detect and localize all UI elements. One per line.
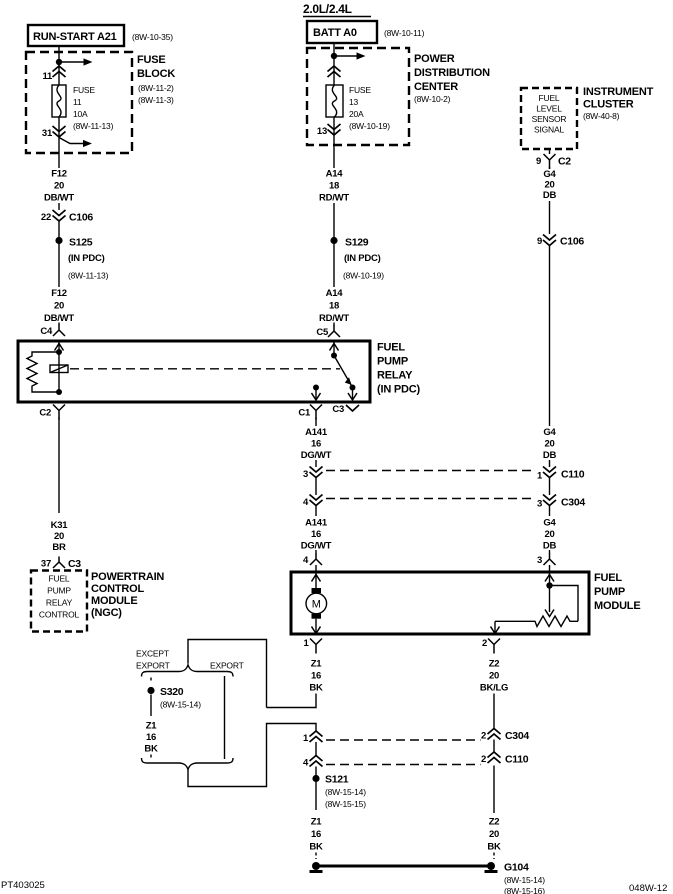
svg-text:(8W-15-15): (8W-15-15) xyxy=(325,799,366,809)
svg-text:20A: 20A xyxy=(349,109,364,119)
svg-text:18: 18 xyxy=(329,181,339,192)
svg-text:Z1: Z1 xyxy=(146,721,158,732)
node switch common xyxy=(331,353,337,359)
svg-text:1: 1 xyxy=(537,471,543,482)
svg-text:22: 22 xyxy=(41,212,51,223)
fuse F13 symbol xyxy=(326,85,343,117)
svg-text:C1: C1 xyxy=(298,408,311,419)
svg-text:C3: C3 xyxy=(332,404,344,415)
alternate merge brace (bottom) xyxy=(142,758,234,770)
wire K31 20 BR xyxy=(51,418,69,554)
wire A141 16 DG/WT (upper) xyxy=(301,418,332,468)
wire Z2 20 BK (ground leg) xyxy=(487,766,501,860)
svg-text:11: 11 xyxy=(42,71,53,82)
wiper arrow onto resistor xyxy=(545,610,554,617)
wire arrow branch right (fuse block bottom) xyxy=(59,138,92,148)
svg-text:RELAY: RELAY xyxy=(46,598,73,608)
svg-text:A141: A141 xyxy=(305,427,328,438)
ground bus G104 xyxy=(316,865,491,868)
svg-text:2: 2 xyxy=(481,731,486,742)
alternate split brace (top) xyxy=(142,665,234,677)
wire branch from Z1 to alternates xyxy=(188,640,267,708)
wire C4 coil feed + entry arrow xyxy=(55,343,64,393)
connector chevrons above fuse 13 xyxy=(328,66,341,77)
svg-text:FUSE: FUSE xyxy=(137,54,166,66)
svg-text:11: 11 xyxy=(73,97,82,107)
resistor parallel to coil xyxy=(27,352,59,392)
svg-text:(8W-11-3): (8W-11-3) xyxy=(138,95,174,105)
svg-text:16: 16 xyxy=(146,732,156,743)
svg-text:POWER: POWER xyxy=(414,53,455,65)
svg-text:1: 1 xyxy=(303,638,309,649)
svg-text:BR: BR xyxy=(52,542,66,553)
splice S125 xyxy=(55,237,108,281)
svg-text:A14: A14 xyxy=(326,169,344,180)
svg-text:MODULE: MODULE xyxy=(594,600,640,612)
svg-text:(8W-10-35): (8W-10-35) xyxy=(132,32,173,42)
wire cluster to C2 xyxy=(549,149,551,154)
svg-text:2.0L/2.4L: 2.0L/2.4L xyxy=(303,2,352,16)
svg-text:(8W-15-14): (8W-15-14) xyxy=(160,700,201,710)
svg-text:S320: S320 xyxy=(160,686,184,698)
svg-text:BATT A0: BATT A0 xyxy=(313,27,357,39)
pin C4 relay xyxy=(40,325,65,338)
svg-text:37: 37 xyxy=(41,559,51,570)
svg-text:CENTER: CENTER xyxy=(414,81,458,93)
connector C106 pin 22 xyxy=(41,210,93,224)
svg-text:3: 3 xyxy=(537,499,542,510)
svg-text:(8W-11-13): (8W-11-13) xyxy=(73,121,114,131)
svg-text:EXPORT: EXPORT xyxy=(210,661,244,671)
dashed connector line C110 xyxy=(326,470,536,472)
svg-text:(IN PDC): (IN PDC) xyxy=(344,253,381,264)
connector C110 pin 1 (right side) xyxy=(537,467,585,482)
wire export branch xyxy=(224,676,226,759)
svg-text:DB: DB xyxy=(543,450,557,461)
svg-text:(8W-10-2): (8W-10-2) xyxy=(414,94,451,104)
svg-text:EXPORT: EXPORT xyxy=(136,661,170,671)
splice S129 xyxy=(330,237,384,281)
pin 2 connector xyxy=(482,638,500,654)
label EXCEPT EXPORT xyxy=(136,649,170,671)
wire A141 16 DG/WT (lower) xyxy=(301,506,332,554)
fuel pump module box xyxy=(291,572,589,634)
label FUSE 13 20A (8W-10-19) xyxy=(349,85,390,131)
svg-text:FUEL: FUEL xyxy=(49,574,70,584)
wire C3 exit + arrow xyxy=(348,388,357,401)
svg-text:(8W-15-14): (8W-15-14) xyxy=(504,875,545,885)
svg-text:POWERTRAIN: POWERTRAIN xyxy=(91,571,164,583)
svg-text:20: 20 xyxy=(54,531,64,542)
svg-text:C3: C3 xyxy=(68,558,81,570)
svg-text:DB/WT: DB/WT xyxy=(44,193,74,204)
svg-text:C110: C110 xyxy=(505,754,529,766)
pin 11 connector chevrons xyxy=(42,66,65,82)
dashed connector line C304 xyxy=(326,498,536,500)
pin 3 fuel pump module xyxy=(537,554,556,572)
svg-text:(8W-11-2): (8W-11-2) xyxy=(138,83,174,93)
wire G4 20 DB (relay level) xyxy=(543,427,557,467)
fuse F11 symbol xyxy=(52,85,66,117)
wire G4 long down to relay area xyxy=(549,246,551,426)
svg-text:SIGNAL: SIGNAL xyxy=(534,125,564,135)
wire F12 20 DB/WT (upper) xyxy=(44,169,74,211)
label 2.0L/2.4L engine xyxy=(303,2,371,17)
wire from RUN-START A21 into fuse block xyxy=(58,46,60,85)
splice S320 (except export) xyxy=(147,678,201,717)
wire C106 to S125 xyxy=(58,222,60,288)
svg-text:INSTRUMENT: INSTRUMENT xyxy=(583,86,654,98)
svg-text:20: 20 xyxy=(489,671,499,682)
svg-text:Z1: Z1 xyxy=(311,659,323,670)
wire arrow branch right (PDC top) xyxy=(334,52,366,59)
powertrain control module dashed box (fuel pump relay control) xyxy=(31,571,87,632)
pin C3 connector xyxy=(332,404,359,415)
fuse block dashed box xyxy=(26,52,132,153)
svg-text:DB/WT: DB/WT xyxy=(44,313,74,324)
svg-text:DB: DB xyxy=(543,190,557,201)
svg-text:16: 16 xyxy=(311,439,321,450)
svg-text:A14: A14 xyxy=(326,288,344,299)
svg-text:C106: C106 xyxy=(560,236,584,248)
label INSTRUMENT CLUSTER xyxy=(583,86,654,121)
wire BATT A0 into PDC xyxy=(333,43,335,85)
svg-text:(8W-15-14): (8W-15-14) xyxy=(325,787,366,797)
svg-text:PUMP: PUMP xyxy=(47,586,71,596)
svg-text:9: 9 xyxy=(536,156,541,167)
svg-text:4: 4 xyxy=(303,497,309,508)
label FUSE BLOCK xyxy=(137,54,175,105)
pin C1 connector xyxy=(298,405,322,420)
svg-text:20: 20 xyxy=(544,439,554,450)
svg-text:RD/WT: RD/WT xyxy=(319,313,349,324)
svg-text:16: 16 xyxy=(311,529,321,540)
svg-text:C110: C110 xyxy=(561,469,585,481)
label FUEL PUMP RELAY (IN PDC) xyxy=(377,342,421,396)
wire Z1 16 BK (S320 branch) xyxy=(144,721,158,760)
svg-text:Z2: Z2 xyxy=(489,817,500,828)
svg-text:RUN-START A21: RUN-START A21 xyxy=(33,31,117,43)
connector C2 pin 9 xyxy=(536,154,571,169)
svg-text:BLOCK: BLOCK xyxy=(137,68,175,80)
svg-text:BK/LG: BK/LG xyxy=(480,683,508,694)
label FUSE 11 10A (8W-11-13) xyxy=(73,85,114,131)
svg-text:S129: S129 xyxy=(345,237,369,249)
svg-text:G4: G4 xyxy=(543,427,556,438)
svg-text:1: 1 xyxy=(303,733,309,744)
wire C1 exit + arrow xyxy=(312,388,321,401)
node junction dot PDC xyxy=(331,53,337,59)
svg-text:G4: G4 xyxy=(543,518,556,529)
svg-text:DG/WT: DG/WT xyxy=(301,541,332,552)
svg-text:CONTROL: CONTROL xyxy=(39,610,80,620)
connector C110 pin 3 (left side) xyxy=(303,467,323,481)
connector C110 pin 4 (left low) xyxy=(303,756,323,769)
svg-text:20: 20 xyxy=(544,180,554,191)
node C3 contact xyxy=(350,385,356,391)
pin 37 connector C3 xyxy=(41,557,81,571)
resistor fuel level sender xyxy=(495,616,578,627)
svg-text:(8W-10-19): (8W-10-19) xyxy=(343,271,384,281)
dashed actuation line xyxy=(70,368,340,370)
wire motor to pin1 + exit arrow xyxy=(312,619,321,634)
node RUN-START A21 feed box xyxy=(28,25,124,46)
svg-text:FUSE: FUSE xyxy=(349,85,371,95)
svg-text:M: M xyxy=(312,599,321,611)
motor M1 fuel pump motor xyxy=(306,588,327,619)
wire G4 20 DB (upper) xyxy=(543,167,557,234)
node junction dot fuse block xyxy=(56,59,62,65)
relay K1 fuel pump relay box xyxy=(18,341,370,402)
svg-text:4: 4 xyxy=(303,555,309,566)
svg-text:G104: G104 xyxy=(504,862,529,874)
svg-text:9: 9 xyxy=(537,236,542,247)
svg-text:048W-12: 048W-12 xyxy=(629,883,667,894)
wire pin3 to sender + entry arrow xyxy=(545,574,554,613)
dashed connector line C110 (low) xyxy=(326,764,481,766)
svg-text:Z1: Z1 xyxy=(311,817,323,828)
wire F12 20 DB/WT (lower) xyxy=(44,288,74,325)
pin 4 fuel pump module xyxy=(303,554,322,572)
svg-text:C2: C2 xyxy=(39,408,51,419)
wire between connectors (left) xyxy=(315,478,317,495)
svg-text:(NGC): (NGC) xyxy=(91,607,122,619)
svg-text:C4: C4 xyxy=(40,326,53,337)
label FUEL PUMP MODULE xyxy=(594,572,640,612)
svg-text:16: 16 xyxy=(311,671,321,682)
svg-text:BK: BK xyxy=(309,842,323,853)
node C1 contact xyxy=(313,385,319,391)
wire sender loop right xyxy=(550,586,579,622)
svg-text:10A: 10A xyxy=(73,109,88,119)
svg-text:CLUSTER: CLUSTER xyxy=(583,99,634,111)
connector C304 pin 1 (left low) xyxy=(303,731,323,744)
wire G4 20 DB (lower) xyxy=(543,506,557,554)
svg-text:31: 31 xyxy=(42,128,53,139)
svg-text:S121: S121 xyxy=(325,774,349,786)
wire between C110 and C304 (right) xyxy=(549,478,551,495)
splice S121 xyxy=(312,774,366,811)
svg-text:SENSOR: SENSOR xyxy=(532,114,567,124)
svg-text:CONTROL: CONTROL xyxy=(91,583,144,595)
svg-text:S125: S125 xyxy=(69,237,93,249)
svg-text:(8W-10-11): (8W-10-11) xyxy=(384,28,425,38)
wire A14 18 RD/WT (lower) xyxy=(319,288,349,326)
connector C304 pin 3 (right side) xyxy=(537,495,585,510)
wire fuse 13 down xyxy=(333,117,335,168)
pin 13 connector chevrons xyxy=(317,124,341,137)
wire arrow branch right (fuse block top) xyxy=(59,58,93,65)
svg-text:C106: C106 xyxy=(69,212,93,224)
svg-text:3: 3 xyxy=(303,469,308,480)
svg-text:16: 16 xyxy=(311,829,321,840)
node coil bottom junction xyxy=(56,389,62,395)
svg-text:20: 20 xyxy=(489,829,499,840)
svg-text:A141: A141 xyxy=(305,518,328,529)
svg-text:RELAY: RELAY xyxy=(377,370,413,382)
svg-text:BK: BK xyxy=(144,744,158,755)
label POWER DISTRIBUTION CENTER xyxy=(414,53,490,104)
svg-text:20: 20 xyxy=(54,301,64,312)
svg-text:DISTRIBUTION: DISTRIBUTION xyxy=(414,67,490,79)
svg-text:DB: DB xyxy=(543,541,557,552)
svg-text:C5: C5 xyxy=(316,327,329,338)
wire Z2 20 BK/LG xyxy=(480,659,508,729)
svg-text:DG/WT: DG/WT xyxy=(301,450,332,461)
svg-text:4: 4 xyxy=(303,758,309,769)
svg-text:C304: C304 xyxy=(561,497,585,509)
wire merge to S121 column xyxy=(188,724,316,787)
svg-text:FUEL: FUEL xyxy=(377,342,405,354)
wire between low connectors (right) xyxy=(493,740,495,753)
power distribution center dashed box xyxy=(307,48,409,145)
node coil top junction xyxy=(56,349,62,355)
svg-text:FUEL: FUEL xyxy=(539,93,560,103)
instrument cluster dashed box (fuel level sensor signal) xyxy=(521,88,577,149)
wire A14 18 RD/WT (upper) xyxy=(319,169,349,288)
wire sender to pin2 + exit arrow xyxy=(491,621,500,633)
wire to S121 xyxy=(315,767,317,776)
svg-text:(8W-11-13): (8W-11-13) xyxy=(68,271,109,281)
connector C304 pin 4 (left side) xyxy=(303,495,323,509)
pin C5 relay xyxy=(316,326,340,339)
node sender junction xyxy=(546,582,552,588)
svg-text:Z2: Z2 xyxy=(489,659,500,670)
pin 31 connector chevrons xyxy=(42,126,66,139)
pin C2 connector xyxy=(39,405,65,420)
svg-text:2: 2 xyxy=(481,754,486,765)
svg-text:(IN PDC): (IN PDC) xyxy=(68,253,105,264)
connector C110 pin 2 (right low) xyxy=(481,752,529,766)
svg-text:F12: F12 xyxy=(51,169,67,180)
svg-text:RD/WT: RD/WT xyxy=(319,193,349,204)
pin 1 connector xyxy=(303,638,322,654)
svg-text:(8W-15-16): (8W-15-16) xyxy=(504,886,545,894)
svg-text:PUMP: PUMP xyxy=(594,586,625,598)
svg-text:F12: F12 xyxy=(51,288,67,299)
svg-text:FUEL: FUEL xyxy=(594,572,622,584)
svg-text:(8W-10-19): (8W-10-19) xyxy=(349,121,390,131)
svg-text:MODULE: MODULE xyxy=(91,595,137,607)
dashed connector line C304 (low) xyxy=(326,739,481,741)
connector C106 pin 9 (right) xyxy=(537,235,584,248)
svg-text:20: 20 xyxy=(544,529,554,540)
svg-text:3: 3 xyxy=(537,555,542,566)
connector C304 pin 2 (right low) xyxy=(481,729,529,743)
svg-text:C2: C2 xyxy=(558,156,571,168)
svg-text:LEVEL: LEVEL xyxy=(536,104,562,114)
svg-text:PUMP: PUMP xyxy=(377,356,408,368)
svg-text:C304: C304 xyxy=(505,730,529,742)
node BATT A0 feed box xyxy=(307,21,377,43)
svg-text:20: 20 xyxy=(54,181,64,192)
svg-text:K31: K31 xyxy=(51,520,69,531)
svg-text:13: 13 xyxy=(317,126,327,137)
svg-text:FUSE: FUSE xyxy=(73,85,95,95)
svg-text:PT403025: PT403025 xyxy=(1,880,45,891)
wire fuse to pin 31 xyxy=(58,117,60,168)
svg-text:G4: G4 xyxy=(543,169,556,180)
switch blade to C3 xyxy=(334,356,353,388)
wire C5 common + entry arrow xyxy=(330,343,339,356)
svg-text:EXCEPT: EXCEPT xyxy=(136,649,169,659)
svg-text:18: 18 xyxy=(329,301,339,312)
wire Z1 16 BK (pump) xyxy=(267,659,323,708)
wire pin4 to motor + entry arrow xyxy=(312,574,321,589)
label POWERTRAIN CONTROL MODULE (NGC) xyxy=(91,571,164,619)
ground terminal left xyxy=(310,862,323,872)
relay coil symbol xyxy=(50,365,68,373)
svg-text:BK: BK xyxy=(487,842,501,853)
svg-text:2: 2 xyxy=(482,638,487,649)
svg-text:13: 13 xyxy=(349,97,359,107)
ground terminal right G104 xyxy=(485,862,546,894)
wire between low connectors (left) xyxy=(315,742,317,756)
svg-text:(IN PDC): (IN PDC) xyxy=(377,384,421,396)
wire Z1 16 BK (ground leg) xyxy=(309,817,323,860)
svg-text:(8W-40-8): (8W-40-8) xyxy=(583,111,620,121)
svg-text:BK: BK xyxy=(309,683,323,694)
